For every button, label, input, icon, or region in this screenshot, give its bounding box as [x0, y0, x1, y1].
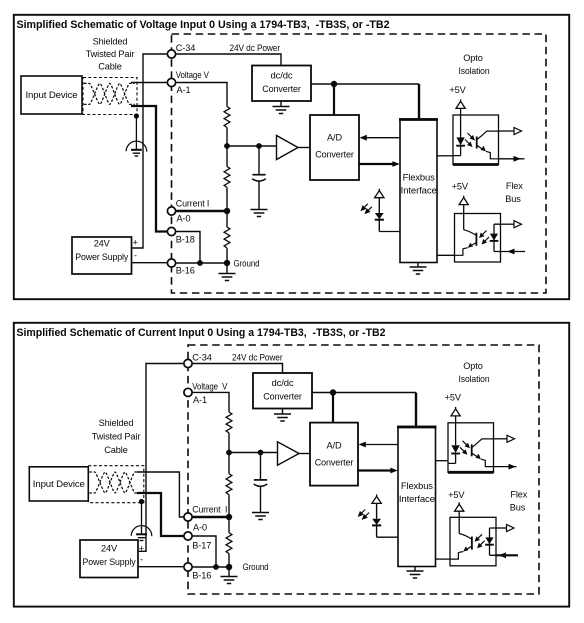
- terminal B-17 panel 2: [184, 532, 192, 540]
- node dot ground: [224, 260, 230, 266]
- svg-text:Twisted Pair: Twisted Pair: [86, 49, 135, 59]
- wire: +24V supply to C-34: [132, 54, 167, 248]
- svg-text:B-16: B-16: [176, 266, 195, 276]
- wire arrow: U2 output (open arrow): [501, 223, 515, 225]
- A/D converter box panel 2: [310, 423, 358, 486]
- svg-text:dc/dc: dc/dc: [271, 71, 294, 81]
- terminal A-1: [167, 78, 175, 86]
- terminal B-18: [167, 227, 175, 235]
- svg-text:Bus: Bus: [510, 503, 526, 513]
- terminal C-34 panel 2: [184, 359, 192, 367]
- svg-text:Opto: Opto: [463, 361, 482, 371]
- node dot rail panel 2: [330, 389, 336, 395]
- wire: LED to flexbus: [379, 231, 400, 233]
- wire: flexbus to opto U1 panel 2: [436, 460, 449, 462]
- svg-text:Interface: Interface: [401, 186, 437, 196]
- resistor R1 panel 2: [226, 412, 232, 433]
- svg-text:A/D: A/D: [327, 133, 342, 143]
- svg-text:Interface: Interface: [399, 494, 435, 504]
- svg-text:A-0: A-0: [177, 214, 191, 224]
- svg-text:Cable: Cable: [98, 62, 121, 72]
- node dot B-17 rail panel 2: [213, 564, 219, 570]
- wire arrow: U1 output (open arrow): [499, 130, 515, 132]
- wire: node to R2 panel 2: [228, 453, 230, 474]
- shield earth ground panel 2: [131, 526, 152, 541]
- svg-text:+5V: +5V: [448, 490, 465, 500]
- svg-text:24V dc Power: 24V dc Power: [230, 43, 281, 53]
- svg-text:B-16: B-16: [192, 571, 211, 581]
- wire: B-16 to ground node panel 2: [192, 566, 229, 568]
- wire: A-0 Current I (thick): [176, 210, 227, 212]
- wire: supply minus to B-16: [132, 262, 168, 264]
- wire arrow: A/D to flexbus (thick) panel 2: [358, 469, 392, 471]
- svg-text:dc/dc: dc/dc: [272, 378, 295, 388]
- svg-text:Isolation: Isolation: [459, 66, 490, 76]
- svg-text:Twisted Pair: Twisted Pair: [92, 432, 141, 442]
- svg-text:Converter: Converter: [315, 458, 354, 468]
- svg-text:+: +: [133, 238, 138, 248]
- node dot chain/amp: [224, 143, 230, 149]
- node dot current panel 2: [226, 514, 232, 520]
- wire: node to amplifier input: [227, 145, 277, 147]
- ground symbol signal ground panel 2: [228, 567, 230, 577]
- wire: rail into flexbus top (thick) panel 2: [415, 393, 417, 427]
- wire arrow: A/D to flexbus (thick): [359, 163, 394, 165]
- svg-text:Flex: Flex: [506, 181, 523, 191]
- svg-text:Power Supply: Power Supply: [75, 252, 129, 262]
- wire: LED to flexbus panel 2: [377, 536, 398, 538]
- input device box panel 2: [29, 467, 88, 501]
- optocoupler U1 panel 2: [448, 423, 494, 473]
- svg-text:-: -: [134, 251, 137, 261]
- wire: R1 to node: [226, 128, 228, 147]
- wire: cable top conductor to A-1: [131, 82, 167, 84]
- twisted pair conductors: [84, 83, 135, 104]
- wire: R2 to current node: [226, 188, 228, 212]
- terminal A-0 panel 2: [184, 513, 192, 521]
- svg-text:24V: 24V: [94, 239, 111, 249]
- wire: dc/dc output rail: [311, 83, 419, 85]
- wire: cap top lead panel 2: [260, 453, 262, 480]
- wire: flexbus to opto U2 panel 2: [436, 558, 451, 560]
- optocoupler U2: [455, 214, 501, 263]
- svg-text:Ground: Ground: [243, 562, 269, 572]
- resistor R2: [224, 167, 230, 188]
- node dot B-18 rail: [197, 260, 203, 266]
- module boundary dashed box: [172, 34, 547, 293]
- node dot cap tap panel 2: [258, 450, 264, 456]
- svg-text:C-34: C-34: [192, 352, 211, 362]
- terminal B-16 panel 2: [184, 563, 192, 571]
- svg-text:Bus: Bus: [505, 194, 521, 204]
- wire: R1 to node panel 2: [228, 433, 230, 453]
- wire: node to amplifier input panel 2: [229, 452, 278, 454]
- terminal B-16: [167, 259, 175, 267]
- 24V power supply box panel 2: [80, 540, 138, 578]
- wire arrow: flexbus to A/D: [364, 137, 400, 139]
- ground under capacitor panel 2: [252, 513, 269, 520]
- wire: amp output: [298, 147, 310, 149]
- wire arrow: flexbus to A/D panel 2: [363, 444, 398, 446]
- ground under flexbus panel 2: [414, 567, 416, 572]
- wire arrow: U2 output (open arrow) panel 2: [496, 527, 507, 529]
- optocoupler U1: [453, 115, 499, 165]
- svg-text:Flexbus: Flexbus: [403, 173, 436, 183]
- svg-text:Current I: Current I: [192, 505, 227, 515]
- svg-text:Current I: Current I: [176, 199, 210, 209]
- ground under capacitor: [251, 210, 268, 217]
- terminal A-1 panel 2: [184, 388, 192, 396]
- input device box: [21, 76, 82, 114]
- twisted pair cable dotted box: [83, 78, 137, 115]
- panel 2 outer border frame: [14, 323, 569, 607]
- wire arrow: U1 emitter out (filled arrow): [499, 158, 525, 160]
- capacitor C1: [252, 175, 266, 181]
- wire: current I node to R3: [226, 211, 228, 227]
- amplifier buffer panel 2: [278, 442, 300, 465]
- wire: supply minus to B-16 panel 2: [138, 566, 184, 568]
- terminal C-34: [167, 50, 175, 58]
- wire: flexbus to opto U2: [437, 254, 455, 256]
- resistor R3 panel 2: [226, 533, 232, 554]
- wire arrow: U2 input from flex bus (filled arrow left) panel 2: [496, 554, 518, 556]
- svg-text:+5V: +5V: [452, 182, 469, 192]
- wire: cap top lead: [258, 146, 260, 174]
- svg-text:Shielded: Shielded: [99, 418, 134, 428]
- ground under dc/dc panel 2: [282, 409, 284, 415]
- wire: B-17 jog to ground rail panel 2: [192, 536, 216, 567]
- svg-text:B-18: B-18: [176, 235, 195, 245]
- svg-text:Shielded: Shielded: [93, 37, 128, 47]
- wire: shield drain: [135, 116, 137, 150]
- wire: dc/dc output rail panel 2: [312, 392, 416, 394]
- wire: cable bottom conductor to B-17 (thick): [137, 493, 184, 536]
- wire: current node to R3 panel 2: [228, 517, 230, 533]
- wire arrow: U2 input from flex bus (filled arrow left): [501, 251, 526, 253]
- svg-text:Converter: Converter: [315, 150, 354, 160]
- svg-text:Converter: Converter: [263, 391, 302, 401]
- svg-text:Cable: Cable: [104, 445, 127, 455]
- wire: A-1 to resistor chain: [176, 83, 227, 107]
- wire: B-18 jog to ground rail: [176, 232, 200, 264]
- svg-text:Converter: Converter: [262, 84, 301, 94]
- node dot cap tap: [256, 143, 262, 149]
- ground under flexbus: [417, 263, 419, 268]
- wire: rail to A/D (thick) panel 2: [332, 393, 334, 423]
- svg-text:Simplified Schematic of Voltag: Simplified Schematic of Voltage Input 0 …: [17, 19, 390, 31]
- svg-text:Power Supply: Power Supply: [83, 557, 137, 567]
- wire: amp output panel 2: [299, 453, 310, 455]
- wire: cap bottom lead panel 2: [260, 487, 262, 513]
- svg-text:B-17: B-17: [192, 541, 211, 551]
- twisted pair conductors panel 2: [89, 472, 140, 493]
- node dot ground panel 2: [226, 564, 232, 570]
- shield earth ground: [126, 141, 147, 156]
- svg-text:Ground: Ground: [234, 259, 260, 269]
- terminal A-0: [167, 207, 175, 215]
- ground symbol signal ground: [226, 263, 228, 274]
- wire: node to R2: [226, 146, 228, 167]
- svg-text:Opto: Opto: [463, 53, 482, 63]
- svg-text:A-1: A-1: [193, 395, 207, 405]
- node dot current: [224, 208, 230, 214]
- svg-text:Isolation: Isolation: [459, 374, 490, 384]
- svg-text:Input Device: Input Device: [33, 479, 85, 489]
- module boundary dashed box panel 2: [188, 345, 539, 594]
- wire: +24V supply to C-34 panel 2: [138, 364, 184, 552]
- optocoupler U2 panel 2: [450, 517, 496, 566]
- wire: R2 to current node panel 2: [228, 495, 230, 517]
- resistor R3: [224, 227, 230, 248]
- flexbus interface box: [400, 119, 437, 263]
- shield drain junction dot panel 2: [139, 499, 144, 504]
- svg-text:A/D: A/D: [327, 441, 342, 451]
- svg-text:+5V: +5V: [449, 85, 466, 95]
- wire: C-34 to dc/dc converter panel 2: [192, 364, 282, 374]
- svg-text:24V dc Power: 24V dc Power: [232, 352, 283, 362]
- wire: rail to A/D (thick): [333, 84, 335, 115]
- flexbus interface box panel 2: [398, 427, 436, 567]
- wire: C-34 to dc/dc converter: [176, 54, 281, 66]
- svg-text:-: -: [140, 555, 143, 565]
- svg-text:Input Device: Input Device: [26, 90, 78, 100]
- node dot chain/amp panel 2: [226, 450, 232, 456]
- wire: B-16 to ground node: [176, 262, 227, 264]
- dc/dc converter box: [252, 66, 311, 102]
- amplifier buffer: [277, 136, 299, 160]
- resistor R2 panel 2: [226, 474, 232, 495]
- wire: R3 to ground node panel 2: [228, 554, 230, 567]
- svg-text:+5V: +5V: [445, 393, 462, 403]
- svg-text:A-1: A-1: [177, 85, 191, 95]
- ground under dc/dc: [280, 101, 282, 107]
- wire: cable top conductor to A-0 (current): [137, 472, 184, 517]
- wire: R3 to ground node: [226, 248, 228, 263]
- svg-text:Voltage V: Voltage V: [192, 381, 228, 391]
- svg-text:Simplified Schematic of Curren: Simplified Schematic of Current Input 0 …: [17, 327, 386, 339]
- wire: A-1 to resistor chain panel 2: [192, 392, 229, 412]
- panel 1 outer border frame: [14, 15, 569, 299]
- wire: cable bottom conductor to B-18 (thick): [131, 106, 167, 232]
- svg-text:Flex: Flex: [510, 490, 527, 500]
- node dot rail: [331, 81, 337, 87]
- wire: A-0 Current I (thick) panel 2: [192, 516, 229, 518]
- svg-text:Voltage V: Voltage V: [176, 70, 210, 80]
- wire: shield drain panel 2: [141, 502, 143, 535]
- svg-text:A-0: A-0: [193, 523, 207, 533]
- svg-text:+: +: [139, 544, 144, 554]
- svg-text:C-34: C-34: [176, 43, 195, 53]
- twisted pair cable dotted box panel 2: [88, 466, 144, 503]
- wire: flexbus to opto U1: [437, 155, 453, 157]
- svg-text:24V: 24V: [101, 544, 118, 554]
- wire arrow: U1 emitter out (filled arrow) panel 2: [494, 466, 517, 468]
- resistor R1: [224, 107, 230, 128]
- wire: rail into flexbus top (thick): [418, 84, 420, 119]
- dc/dc converter box panel 2: [253, 373, 312, 409]
- indicator LED D1 with +5V panel 2: [359, 494, 382, 537]
- svg-text:Flexbus: Flexbus: [401, 481, 434, 491]
- A/D converter box: [310, 115, 359, 180]
- shield drain junction dot: [134, 113, 139, 118]
- wire arrow: U1 output (open arrow) panel 2: [494, 438, 508, 440]
- capacitor C1 panel 2: [254, 480, 268, 486]
- 24V power supply box: [72, 237, 132, 274]
- wire: cap bottom lead: [258, 182, 260, 210]
- indicator LED D1 with +5V: [361, 189, 384, 232]
